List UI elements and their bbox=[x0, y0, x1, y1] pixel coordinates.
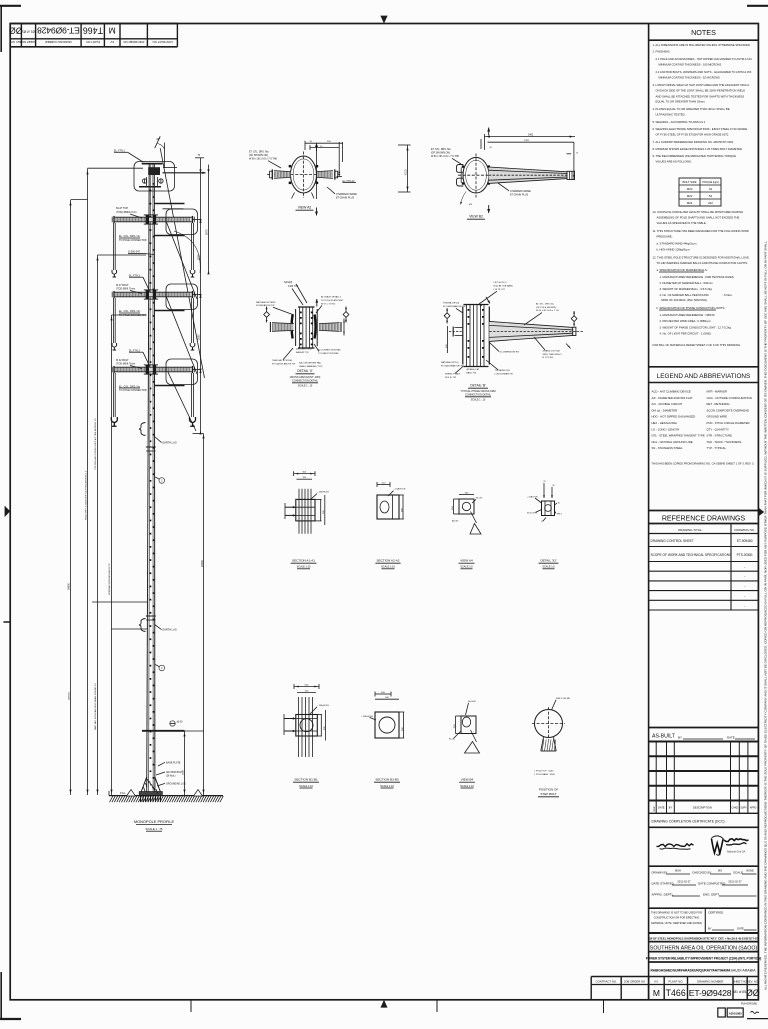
svg-text:ET-CHAIN PLUS: ET-CHAIN PLUS bbox=[510, 193, 528, 196]
svg-text:BY: BY bbox=[678, 736, 682, 740]
svg-text:VALUES AS SPECIFIED IN THE TAB: VALUES AS SPECIFIED IN THE TABLE. bbox=[657, 221, 707, 225]
svg-text:ACD - ANT CLIMBING DEVICE: ACD - ANT CLIMBING DEVICE bbox=[652, 390, 691, 394]
svg-text:APPRG. DEPTL.: APPRG. DEPTL. bbox=[652, 893, 675, 897]
svg-text:ET-9Ø9428: ET-9Ø9428 bbox=[689, 988, 732, 998]
svg-text:6. WELDING ELECTRODE SPECIFICA: 6. WELDING ELECTRODE SPECIFICATIONS - E6… bbox=[653, 127, 748, 131]
svg-text:WELD ON ØD: WELD ON ØD bbox=[556, 698, 571, 700]
svg-text:(34500): (34500) bbox=[69, 692, 71, 700]
svg-text:2012-02-27: 2012-02-27 bbox=[677, 880, 691, 884]
svg-text:MTR - MARKER: MTR - MARKER bbox=[707, 390, 728, 394]
revision cloud at arm y=369.5 bbox=[166, 359, 198, 385]
detail X black arrow top bbox=[316, 299, 318, 307]
svg-text:BY: BY bbox=[669, 807, 673, 810]
detail X right arm bbox=[319, 323, 340, 332]
svg-text:MATERIAL UNTIL CERTIFIED AND D: MATERIAL UNTIL CERTIFIED AND DATED bbox=[651, 921, 702, 925]
svg-text:7. ALL KURDISH REFERENCED DRAW: 7. ALL KURDISH REFERENCED DRAWING NO. AB… bbox=[653, 140, 734, 144]
suspension insulator string bbox=[191, 298, 193, 343]
detail X tip diamonds bbox=[264, 312, 270, 318]
svg-text:-: - bbox=[744, 575, 745, 579]
svg-text:ET-9Ø9428: ET-9Ø9428 bbox=[37, 25, 80, 35]
view B2 tapered arm bbox=[489, 167, 567, 183]
jumper diagonal line long bbox=[160, 148, 204, 378]
view B2 dimensions bbox=[485, 136, 576, 138]
svg-text:CONNECTION DETAIL: CONNECTION DETAIL bbox=[292, 380, 319, 383]
svg-text:TO AIR WARNING MARKER BALLS AN: TO AIR WARNING MARKER BALLS AND PHASE CO… bbox=[657, 261, 749, 265]
svg-text:DESCRIPTION: DESCRIPTION bbox=[693, 806, 712, 810]
svg-text:SCALE 1 : 10: SCALE 1 : 10 bbox=[298, 385, 313, 388]
svg-text:PCD - PITCH CIRCLE DIAMETER: PCD - PITCH CIRCLE DIAMETER bbox=[707, 421, 750, 425]
svg-text:THK 7: THK 7 bbox=[557, 513, 564, 515]
svg-text:SCOPE OF WORK AND TECHNICAL SP: SCOPE OF WORK AND TECHNICAL SPECIFICATIO… bbox=[651, 553, 732, 557]
svg-text:Ø1 of Ø1: Ø1 of Ø1 bbox=[734, 990, 747, 994]
svg-text:CROSS ARM (EXIST. 40M): CROSS ARM (EXIST. 40M) bbox=[290, 376, 321, 379]
svg-text:A/F - DIAMETER ACROSS FLAT: A/F - DIAMETER ACROSS FLAT bbox=[652, 396, 693, 400]
svg-text:OF FY36 STEEL OF FY55 E7018 FO: OF FY36 STEEL OF FY55 E7018 FOR HIGH GRA… bbox=[656, 133, 729, 137]
svg-text:JOB ORDER NO.: JOB ORDER NO. bbox=[122, 40, 144, 44]
svg-text:PLANT NO.: PLANT NO. bbox=[85, 40, 100, 44]
svg-text:ALL RIGHTS RESERVED. THE INFOR: ALL RIGHTS RESERVED. THE INFORMATION CON… bbox=[763, 241, 767, 990]
corner crop mark top-left bbox=[0, 5, 21, 7]
svg-text:3. LONGITUDINAL WELD AT SLIP J: 3. LONGITUDINAL WELD AT SLIP JOINT AREA … bbox=[653, 83, 750, 87]
detail X right small dim bbox=[343, 319, 345, 336]
svg-text:DRAWING TITLE: DRAWING TITLE bbox=[678, 528, 701, 532]
svg-text:(DET) ANTI SLIP: (DET) ANTI SLIP bbox=[296, 348, 313, 351]
svg-text:DRAWING NUMBER: DRAWING NUMBER bbox=[697, 979, 723, 983]
svg-text:HEX - HEXAGONAL: HEX - HEXAGONAL bbox=[652, 421, 678, 425]
svg-text:SS - STAINLESS STEEL: SS - STAINLESS STEEL bbox=[652, 446, 683, 450]
svg-text:FLYCATCH ABOVE TW: FLYCATCH ABOVE TW bbox=[272, 362, 296, 365]
svg-text:SECTION B1-B1: SECTION B1-B1 bbox=[294, 778, 317, 782]
view A4 flag bbox=[471, 512, 477, 524]
svg-text:W 60 x 38.1 KG x 7.9 THK: W 60 x 38.1 KG x 7.9 THK bbox=[249, 158, 278, 161]
arabic company name left bbox=[657, 844, 694, 847]
svg-text:MG: MG bbox=[718, 869, 722, 873]
left tall dimension lines bbox=[70, 200, 72, 795]
svg-text:a. STANDARD WIND 44kg/Sq.m: a. STANDARD WIND 44kg/Sq.m bbox=[657, 242, 698, 246]
pole slip joints bbox=[146, 446, 156, 448]
svg-text:DATE STARTED: DATE STARTED bbox=[652, 882, 675, 886]
svg-text:A3501085: A3501085 bbox=[729, 1012, 742, 1016]
svg-text:Rs 45°: Rs 45° bbox=[476, 497, 483, 499]
svg-text:FOUNDATION TW: FOUNDATION TW bbox=[256, 304, 275, 307]
right column divider bbox=[648, 24, 650, 1000]
svg-text:NATURA (OPTIO): NATURA (OPTIO) bbox=[441, 361, 459, 364]
svg-text:EARTH LUG: EARTH LUG bbox=[163, 629, 177, 632]
svg-text:+ DIA (TYP): + DIA (TYP) bbox=[527, 495, 538, 498]
svg-text:LG - LONG / LENGTH: LG - LONG / LENGTH bbox=[652, 427, 680, 431]
pole step bolts bbox=[153, 183, 155, 185]
reference drawings table bbox=[649, 510, 759, 512]
svg-text:CONTRACT NO.: CONTRACT NO. bbox=[596, 979, 617, 983]
svg-text:M: M bbox=[109, 26, 116, 36]
svg-text:TO POLE CONNECTOR: TO POLE CONNECTOR bbox=[119, 389, 147, 392]
svg-text:ØØ: ØØ bbox=[746, 988, 760, 998]
svg-text:2. PROJECTED WIND AREA: 2. PROJECTED WIND AREA : 0.068Sq.m bbox=[660, 319, 712, 323]
svg-text:4. No. OF MARKER BALL PER ROUN: 4. No. OF MARKER BALL PER ROUND bbox=[660, 293, 709, 297]
svg-text:SCCW COMPOSITE OVERHEAD: SCCW COMPOSITE OVERHEAD bbox=[707, 408, 750, 412]
ground level dimension x184 bbox=[184, 731, 186, 795]
section A1-A1 bbox=[294, 473, 315, 475]
svg-text:R 1 PL RG: R 1 PL RG bbox=[543, 357, 554, 359]
view B2 leader bottom left bbox=[461, 192, 467, 205]
svg-text:2.2 ANCHOR BOLTS, WASHERS AND: 2.2 ANCHOR BOLTS, WASHERS AND NUTS - GAL… bbox=[656, 70, 752, 74]
svg-text:A/C - DOUBLE CIRCUIT: A/C - DOUBLE CIRCUIT bbox=[652, 402, 683, 406]
svg-text:HDG - HOT DIPPED GALVANIZED: HDG - HOT DIPPED GALVANIZED bbox=[652, 415, 696, 419]
svg-text:ET. STL. DRS. Ma: ET. STL. DRS. Ma bbox=[249, 150, 269, 153]
svg-text:POWER SYSTEM RELIABILITY IMPRO: POWER SYSTEM RELIABILITY IMPROVEMENT PRO… bbox=[646, 956, 762, 960]
svg-text:POSITION OF: POSITION OF bbox=[539, 787, 559, 791]
view A4 bbox=[459, 499, 474, 514]
svg-text:SCALE 1:10: SCALE 1:10 bbox=[297, 566, 311, 569]
svg-text:NONE: NONE bbox=[746, 869, 754, 873]
svg-text:STR - STRUCTURE: STR - STRUCTURE bbox=[707, 434, 732, 438]
svg-text:2930: 2930 bbox=[197, 334, 200, 340]
svg-text:SHEET NO.: SHEET NO. bbox=[733, 979, 748, 983]
svg-text:VIEW B4: VIEW B4 bbox=[461, 778, 474, 782]
svg-text:REV: REV bbox=[653, 806, 656, 811]
svg-text:ET-909480: ET-909480 bbox=[737, 539, 753, 543]
svg-text:PLANT NO.: PLANT NO. bbox=[668, 979, 683, 983]
corner crop mark bottom-left bbox=[0, 972, 2, 1020]
svg-text:11. THIS STRUCTURE HAS BEEN DE: 11. THIS STRUCTURE HAS BEEN DESIGNED FOR… bbox=[653, 229, 749, 233]
svg-text:SUPV: SUPV bbox=[740, 807, 747, 810]
svg-text:PTS-00381: PTS-00381 bbox=[737, 553, 753, 557]
svg-text:RUH-DRG(M): RUH-DRG(M) bbox=[741, 1001, 757, 1005]
as-built row bbox=[649, 727, 759, 729]
drawn-by info box bbox=[649, 907, 759, 909]
detail B top arrows bbox=[486, 297, 490, 304]
svg-text:3. WEIGHT OF MARKER BALL: 3. WEIGHT OF MARKER BALL : 4.5-5.2kg bbox=[660, 287, 713, 291]
handwritten mark bbox=[751, 1011, 760, 1013]
svg-text:AS-BUILT: AS-BUILT bbox=[652, 733, 676, 739]
svg-text:BOLT SIZE: BOLT SIZE bbox=[682, 180, 696, 184]
view A2 dimensions top bbox=[305, 142, 343, 144]
svg-text:W 57 L 7.9 KG: W 57 L 7.9 KG bbox=[321, 303, 336, 305]
svg-text:+ DIA HOLE: + DIA HOLE bbox=[361, 715, 374, 718]
svg-text:-: - bbox=[744, 584, 745, 588]
svg-text:SA CONVERTER PAD: SA CONVERTER PAD bbox=[299, 361, 321, 364]
fold tick bottom x603 bbox=[603, 1000, 605, 1013]
svg-text:DIA (o) - DIAMETER: DIA (o) - DIAMETER bbox=[652, 408, 678, 412]
svg-text:REV. NO.: REV. NO. bbox=[747, 979, 759, 983]
svg-text:TO POLE CONNECTOR: TO POLE CONNECTOR bbox=[119, 239, 147, 242]
svg-text:THROVAL SYSTEM: THROVAL SYSTEM bbox=[272, 359, 292, 362]
svg-text:EQUAL TO OR GREATER THAN 29mm.: EQUAL TO OR GREATER THAN 29mm. bbox=[656, 100, 706, 104]
svg-text:VIEW B2: VIEW B2 bbox=[469, 215, 483, 219]
svg-text:MONOPOLE PROFILE: MONOPOLE PROFILE bbox=[134, 819, 175, 824]
svg-text:EARTH LUG: EARTH LUG bbox=[163, 442, 177, 445]
earth lug callout upper bbox=[139, 423, 146, 436]
svg-text:# POLE TOP : 5400: # POLE TOP : 5400 bbox=[534, 770, 554, 772]
revision table grid bbox=[649, 755, 759, 757]
svg-text:POLE SHFT 4 31000 SHFT A 4 TIM: POLE SHFT 4 31000 SHFT A 4 TIML ACCESS 1… bbox=[84, 470, 87, 520]
circled callout 2 upper bbox=[159, 478, 165, 484]
view B4 flag bbox=[471, 730, 477, 742]
circled callout 2 lower bbox=[159, 665, 165, 671]
svg-text:NTL - STEEL WRAPPED TANGENT: NTL - STEEL WRAPPED TANGENT TYPE bbox=[652, 434, 705, 438]
svg-text:LEGEND AND ABBREVIATIONS: LEGEND AND ABBREVIATIONS bbox=[657, 373, 751, 380]
svg-text:2269: 2269 bbox=[524, 140, 530, 142]
suspension insulator string bbox=[112, 298, 114, 343]
svg-text:4. No. OF LIGHT PER CIRCUIT: 4. No. OF LIGHT PER CIRCUIT : 1 (ONE) bbox=[660, 332, 711, 336]
svg-text:RABIGH/SHEDGUM/FARASKUR/QURAYY: RABIGH/SHEDGUM/FARASKUR/QURAYYAH/TIHAMA bbox=[651, 969, 731, 973]
svg-text:M20: M20 bbox=[687, 187, 693, 191]
svg-text:+ DIA HOLE: + DIA HOLE bbox=[394, 488, 407, 491]
svg-text:TYP - TYPICAL: TYP - TYPICAL bbox=[707, 446, 727, 450]
anchor bolts below base bbox=[140, 795, 142, 802]
section A1-A1 left arrows bbox=[284, 503, 286, 519]
fold mark top triangle bbox=[380, 16, 387, 24]
svg-text:No 60Ø: No 60Ø bbox=[468, 701, 476, 703]
svg-text:CONSTRUCTION OR FOR ERECTIN: CONSTRUCTION OR FOR ERECTING bbox=[654, 916, 700, 920]
suspension insulator string bbox=[112, 223, 114, 270]
svg-text:30°: 30° bbox=[156, 137, 160, 141]
svg-text:SHEET NO.: SHEET NO. bbox=[21, 40, 36, 44]
section B3-B3 bbox=[375, 712, 399, 738]
svg-text:SCALE 1:10: SCALE 1:10 bbox=[460, 785, 474, 788]
southern area oil operation row bbox=[649, 951, 759, 953]
svg-text:M24: M24 bbox=[687, 201, 693, 205]
section A1-A1 right bracket bbox=[320, 499, 322, 521]
notes title bar bbox=[649, 39, 759, 41]
arabic company name right bbox=[724, 839, 749, 842]
view B4 bbox=[461, 716, 476, 734]
svg-text:SL DIMENSION RG: SL DIMENSION RG bbox=[500, 351, 520, 353]
svg-text:THIGHA (TIP10): THIGHA (TIP10) bbox=[443, 302, 459, 305]
svg-text:MINIMUM COATING THICKNESS - 10: MINIMUM COATING THICKNESS - 100 MICRONS bbox=[659, 63, 722, 67]
svg-text:-: - bbox=[744, 565, 745, 569]
detail B left diamond and dim bbox=[444, 313, 450, 319]
svg-text:AT. STL. DRS. Ma: AT. STL. DRS. Ma bbox=[536, 302, 554, 305]
svg-text:A6 40°: A6 40° bbox=[452, 520, 459, 523]
svg-text:L13 TIL KIT: L13 TIL KIT bbox=[494, 289, 506, 291]
svg-text:2500: 2500 bbox=[182, 769, 184, 775]
view B2 bolt squares bbox=[488, 165, 490, 167]
svg-text:M: M bbox=[653, 988, 660, 998]
svg-text:+ DIA HOLE: + DIA HOLE bbox=[317, 491, 330, 494]
detail X2 bbox=[542, 501, 555, 516]
right dimension line x200 bbox=[200, 158, 202, 434]
svg-text:SAUDI ARABIA: SAUDI ARABIA bbox=[731, 969, 757, 973]
detail B pole section bbox=[464, 304, 489, 306]
svg-text:DETAIL 'X2': DETAIL 'X2' bbox=[540, 559, 557, 563]
svg-text:BASE PLATE: BASE PLATE bbox=[166, 761, 181, 764]
svg-text:DRAWING NO.: DRAWING NO. bbox=[734, 528, 755, 532]
svg-text:W R.R. TW: W R.R. TW bbox=[445, 377, 457, 379]
svg-text:SCALE 1 : 10: SCALE 1 : 10 bbox=[471, 399, 486, 402]
svg-text:ET. STL. DRS. Ma: ET. STL. DRS. Ma bbox=[431, 148, 451, 151]
svg-text:2462: 2462 bbox=[528, 135, 534, 137]
view A2 bottom flags bbox=[292, 193, 295, 199]
svg-text:DRAWING CONTROL SHEET: DRAWING CONTROL SHEET bbox=[651, 539, 694, 543]
svg-text:SECTION B3-B3: SECTION B3-B3 bbox=[375, 778, 398, 782]
svg-text:2. FINISHING:: 2. FINISHING: bbox=[653, 50, 671, 54]
svg-text:: 3 Nos.: : 3 Nos. bbox=[722, 293, 733, 297]
svg-text:CHAMFER FRAME: CHAMFER FRAME bbox=[510, 190, 531, 193]
30 degree angle dimension bbox=[155, 136, 161, 148]
svg-text:SECTION A1-A1: SECTION A1-A1 bbox=[292, 559, 315, 563]
svg-text:34500: 34500 bbox=[68, 582, 71, 590]
svg-text:DRAWN BY: DRAWN BY bbox=[652, 871, 668, 875]
detail B arm end plate bbox=[573, 327, 576, 335]
position of step bolt circle bbox=[535, 710, 563, 738]
svg-text:M 42 AT TUB BASD: M 42 AT TUB BASD bbox=[494, 284, 514, 287]
monopole profile pole shaft bbox=[147, 163, 155, 795]
svg-text:BY: BY bbox=[708, 927, 712, 931]
svg-text:b. HIGH WIND 128kg/Sq.m: b. HIGH WIND 128kg/Sq.m bbox=[657, 248, 691, 252]
svg-text:DETAIL 'B': DETAIL 'B' bbox=[470, 384, 486, 388]
svg-text:SCALE: SCALE bbox=[733, 871, 743, 875]
jumper arc level2 bbox=[174, 231, 200, 273]
svg-text:TO POLE FLATFORM: TO POLE FLATFORM bbox=[321, 299, 343, 302]
svg-text:30 CONNECTION PAD: 30 CONNECTION PAD bbox=[318, 348, 341, 351]
svg-text:16500: 16500 bbox=[201, 559, 204, 567]
svg-text:T466: T466 bbox=[83, 26, 103, 36]
svg-text:M 47 BOLT: M 47 BOLT bbox=[116, 284, 129, 287]
svg-text:REV. NO.: REV. NO. bbox=[10, 40, 22, 44]
view A2 bolt squares bbox=[289, 165, 292, 168]
svg-text:NOTES: NOTES bbox=[691, 28, 716, 37]
cross arm assembly at y=369.5 bbox=[114, 367, 192, 372]
svg-text:GROUND WIRE: GROUND WIRE bbox=[707, 415, 728, 419]
svg-text:(OF SHOWN ON): (OF SHOWN ON) bbox=[431, 152, 450, 155]
revision table header labels bbox=[649, 812, 759, 814]
svg-text:TOP SOIL ADJ 4 POLE SUPV A 3 T: TOP SOIL ADJ 4 POLE SUPV A 3 TIML ACCESS… bbox=[94, 418, 97, 470]
svg-text:M.20 (TYP): M.20 (TYP) bbox=[527, 513, 538, 515]
svg-text:CERTIFIED: CERTIFIED bbox=[708, 911, 723, 915]
svg-text:ATI ANG 2 AT: ATI ANG 2 AT bbox=[467, 368, 480, 371]
svg-text:SCALE 1:5: SCALE 1:5 bbox=[460, 566, 473, 569]
ground line with hatching bbox=[109, 795, 223, 797]
view A2 right dimension column bbox=[407, 145, 409, 192]
revision cloud at arm y=294.5 bbox=[166, 284, 198, 310]
earth wire dimension tie level1 bbox=[163, 167, 177, 169]
svg-text:84 AT TOP: 84 AT TOP bbox=[116, 207, 128, 210]
elevation zero marker bbox=[170, 721, 175, 726]
svg-text:JOB ORDER NO.: JOB ORDER NO. bbox=[624, 979, 646, 983]
svg-text:FOR BILL OF MATERIALS REFER SH: FOR BILL OF MATERIALS REFER SHEET 2 OF 6… bbox=[653, 343, 742, 347]
svg-text:National Grid SA: National Grid SA bbox=[727, 851, 746, 854]
svg-text:±0.00: ±0.00 bbox=[177, 721, 184, 724]
earth lug callout lower bbox=[139, 619, 146, 632]
revision cloud pole top bbox=[134, 162, 175, 192]
section A2-A2 bbox=[377, 495, 399, 519]
fold tick bottom x191 bbox=[190, 1000, 192, 1012]
detail X flange plates bbox=[292, 315, 293, 339]
svg-text:GROUNDING LUG: GROUNDING LUG bbox=[166, 783, 186, 785]
corner crop mark top-right bbox=[747, 5, 768, 7]
fold tick left edge bbox=[3, 621, 10, 623]
svg-text:1. ALL DIMENSIONS ARE IN MILLI: 1. ALL DIMENSIONS ARE IN MILLIMETER UNLE… bbox=[653, 43, 751, 47]
view A2 pole section with double cross arm bbox=[291, 156, 317, 193]
svg-text:P.G.L: P.G.L bbox=[120, 792, 126, 795]
fold tick bottom x437 bbox=[436, 1000, 438, 1012]
svg-text:ANCHOR BOLT: ANCHOR BOLT bbox=[166, 771, 183, 774]
svg-text:ØØ: ØØ bbox=[9, 25, 23, 35]
svg-text:1. MANUFACTURER REFERENCE: 1. MANUFACTURER REFERENCE : P&R TECHNOLO… bbox=[660, 275, 734, 279]
svg-text:THIS HAS BEEN COPIED FROM DRAW: THIS HAS BEEN COPIED FROM DRAWING NO. CA… bbox=[652, 462, 755, 466]
pole base flare and base plate bbox=[141, 777, 146, 792]
svg-text:8. MINIMUM SHOWN EDGE DISTANCE: 8. MINIMUM SHOWN EDGE DISTANCES 1.25 TIM… bbox=[653, 147, 743, 151]
svg-text:+ DIA HOLE: + DIA HOLE bbox=[317, 704, 330, 707]
detail B left stub arm bbox=[455, 327, 463, 329]
svg-text:NOMINAL GROUNDLINE EXTG: NOMINAL GROUNDLINE EXTG bbox=[108, 563, 111, 595]
section B1-B1 bbox=[294, 686, 319, 688]
svg-text:9. THE RECOMMENDED UNLUBRICATE: 9. THE RECOMMENDED UNLUBRICATED TIGHTENI… bbox=[653, 154, 737, 158]
svg-text:b. SPECIFICATION OF PHASE COND: b. SPECIFICATION OF PHASE CONDUCTOR LIGH… bbox=[657, 306, 726, 310]
svg-text:DRAWING NUMBER: DRAWING NUMBER bbox=[45, 40, 71, 44]
svg-text:TORQUE (kgm): TORQUE (kgm) bbox=[702, 181, 719, 184]
svg-text:CHAMFER FRAME: CHAMFER FRAME bbox=[336, 193, 357, 196]
right dimension line x208 bbox=[208, 165, 210, 274]
svg-text:LIFT HOLD 2: LIFT HOLD 2 bbox=[494, 282, 508, 284]
jumper bars near pole bbox=[155, 203, 185, 205]
top-left rotated title strip bbox=[9, 24, 178, 47]
detail B right tip diamond bbox=[571, 316, 577, 322]
svg-text:12. THIS STEEL POLE STRUCTURE: 12. THIS STEEL POLE STRUCTURE IS DESIGNE… bbox=[653, 256, 749, 260]
svg-text:(TOD Ø6/9.7)mm: (TOD Ø6/9.7)mm bbox=[116, 287, 135, 290]
suspension insulator string bbox=[112, 373, 114, 417]
svg-text:MINIMUM COATING THICKNESS - 52: MINIMUM COATING THICKNESS - 52 MICRONS bbox=[659, 76, 720, 80]
svg-text:10. COUPLING FORCE AND LENGTH: 10. COUPLING FORCE AND LENGTH SHALL BE M… bbox=[653, 210, 744, 214]
jumper diagonals between arms bbox=[167, 222, 198, 299]
svg-text:ET-CHAIN PLUS: ET-CHAIN PLUS bbox=[336, 196, 354, 199]
svg-text:OGC - OUTSIDE CONFIGURATION: OGC - OUTSIDE CONFIGURATION bbox=[707, 396, 752, 400]
suspension insulator string bbox=[191, 373, 193, 417]
signature underline bottom right bbox=[747, 1018, 768, 1020]
svg-text:42: 42 bbox=[709, 187, 713, 191]
svg-text:T466: T466 bbox=[666, 988, 686, 998]
cross arm assembly at y=294.5 bbox=[114, 292, 192, 297]
svg-text:NGL - NATURAL GROUND LINE: NGL - NATURAL GROUND LINE bbox=[652, 440, 693, 444]
svg-text:2870: 2870 bbox=[205, 229, 208, 235]
svg-text:SCALE 1:10: SCALE 1:10 bbox=[299, 785, 313, 788]
svg-text:ULTRASONIC TESTED.: ULTRASONIC TESTED. bbox=[656, 113, 686, 117]
svg-text:GRAND LG PLAT: GRAND LG PLAT bbox=[543, 349, 561, 352]
svg-text:ON EACH SIDE OF THE JOINT SHAL: ON EACH SIDE OF THE JOINT SHALL BE 100% … bbox=[656, 89, 746, 93]
svg-text:FLYCATCHABOVE TW: FLYCATCHABOVE TW bbox=[441, 364, 465, 367]
svg-text:(OF POLE SHOWN): (OF POLE SHOWN) bbox=[536, 307, 556, 309]
svg-text:ASSEMBLING OF POLE SHAFTS AND: ASSEMBLING OF POLE SHAFTS AND SHALL NOT … bbox=[657, 216, 740, 220]
stamp box empty bbox=[718, 1008, 726, 1017]
svg-text:4210: 4210 bbox=[405, 169, 408, 175]
svg-text:TYPICAL PHASE CROSS ARM: TYPICAL PHASE CROSS ARM bbox=[460, 390, 495, 393]
right dimension line lower x203 bbox=[203, 434, 205, 796]
view B2 pole section with single arm bbox=[463, 157, 489, 193]
svg-text:a. SPECIFICATION OF MARKER BAL: a. SPECIFICATION OF MARKER BALLS: bbox=[657, 268, 708, 272]
svg-text:MOH: MOH bbox=[675, 869, 681, 873]
svg-text:Rs 45: Rs 45 bbox=[449, 739, 455, 741]
svg-text:DRAWING COMPLETION CERTIFICATE: DRAWING COMPLETION CERTIFICATE (DCC) : bbox=[652, 820, 727, 824]
svg-text:5. WELDING - ACCORDING TO AWS: 5. WELDING - ACCORDING TO AWS D1.1 bbox=[653, 120, 706, 124]
section B1-B1 right bracket bbox=[320, 715, 322, 737]
svg-text:W 60 x 38.1 KG x 7 TH: W 60 x 38.1 KG x 7 TH bbox=[536, 310, 559, 312]
svg-text:KV: KV bbox=[110, 40, 114, 44]
view A2 left arm bbox=[274, 171, 290, 179]
fold mark left triangle bbox=[5, 506, 11, 517]
fold mark right triangle bbox=[758, 508, 764, 517]
stamp box number bbox=[727, 1008, 743, 1017]
fold mark bottom triangle bbox=[381, 1000, 388, 1008]
svg-text:(TOD) Ø66/9.7mm: (TOD) Ø66/9.7mm bbox=[116, 211, 137, 214]
bottom title strip bbox=[591, 976, 758, 978]
svg-text:KV: KV bbox=[655, 979, 659, 983]
svg-text:SCALE 1:5: SCALE 1:5 bbox=[542, 566, 555, 569]
svg-text:APPD: APPD bbox=[750, 807, 757, 810]
company logo box - national grid SA bbox=[649, 865, 759, 867]
svg-text:AND SHALL BE ATTACHED TESTED F: AND SHALL BE ATTACHED TESTED FOR SHAFTS … bbox=[656, 95, 745, 99]
svg-text:FLYCATCHABOVE TW: FLYCATCHABOVE TW bbox=[443, 305, 467, 308]
